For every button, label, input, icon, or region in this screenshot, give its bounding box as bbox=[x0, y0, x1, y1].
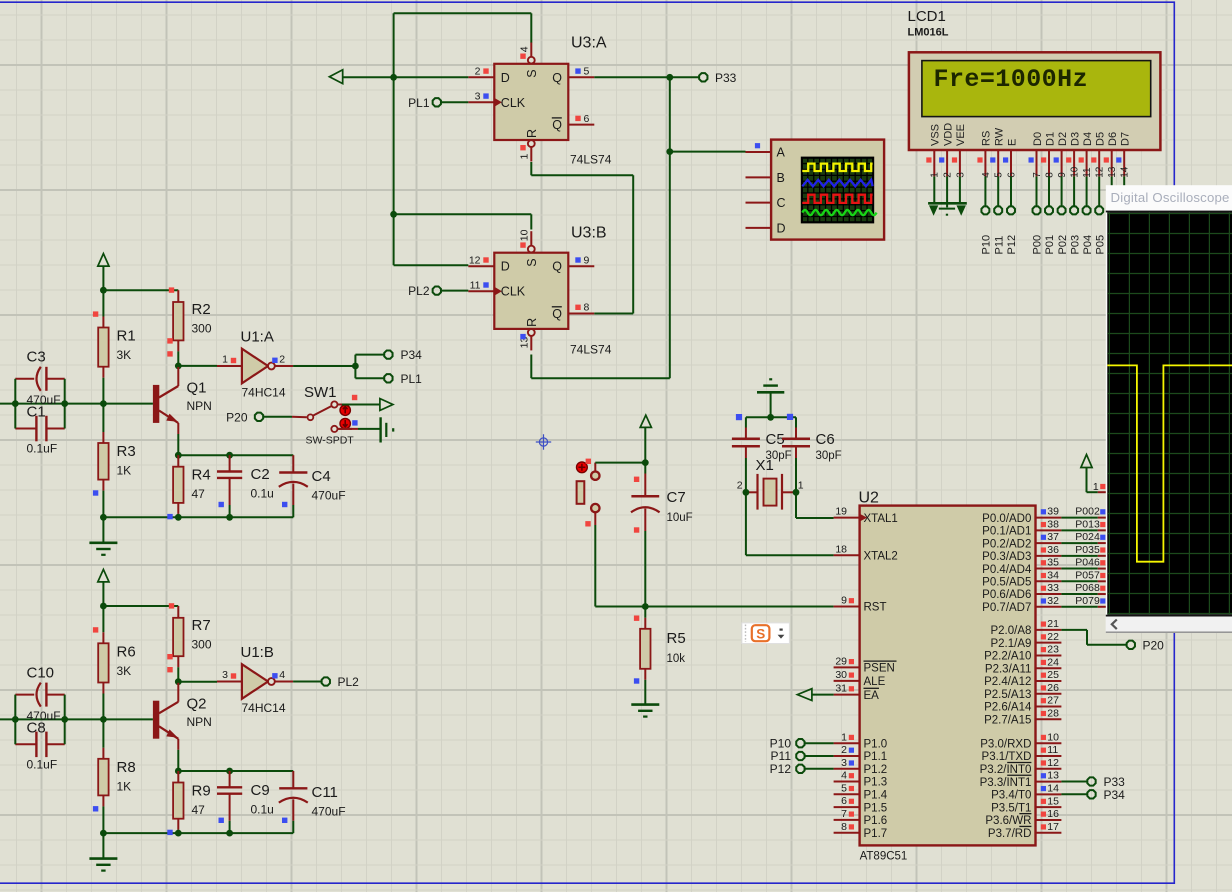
svg-text:14: 14 bbox=[1120, 166, 1131, 178]
svg-text:4: 4 bbox=[279, 669, 285, 681]
wire net P01 (P0.1 to hidden chip pin 3) bbox=[1061, 518, 1106, 530]
svg-text:32: 32 bbox=[1047, 595, 1059, 607]
svg-text:PSEN: PSEN bbox=[864, 663, 895, 675]
svg-text:P1.4: P1.4 bbox=[864, 790, 888, 802]
node terminal P02 (LCD) bbox=[1057, 176, 1069, 254]
svg-text:4: 4 bbox=[841, 770, 847, 782]
svg-text:16: 16 bbox=[1047, 808, 1059, 820]
resistor R4 47 bbox=[173, 455, 211, 517]
node terminal PL1 (U3:A clock) bbox=[408, 96, 468, 110]
transistor Q2 NPN bbox=[153, 683, 212, 771]
svg-text:PL2: PL2 bbox=[338, 675, 360, 689]
capacitor C8 0.1uF bbox=[15, 719, 64, 771]
svg-text:P34: P34 bbox=[1104, 788, 1126, 802]
svg-text:R5: R5 bbox=[667, 630, 686, 647]
svg-text:13: 13 bbox=[1047, 770, 1059, 782]
node terminal P11 (U2 P1.1) bbox=[771, 749, 834, 763]
svg-text:P3.3/INT1: P3.3/INT1 bbox=[980, 777, 1032, 789]
svg-text:U1:A: U1:A bbox=[241, 329, 274, 346]
node emitter junctions bbox=[175, 452, 233, 459]
wire EA to arrow bbox=[797, 689, 833, 701]
svg-text:P3.5/T1: P3.5/T1 bbox=[991, 802, 1031, 814]
switch SW1 SW-SPDT bbox=[264, 384, 355, 447]
node base junctions bbox=[12, 400, 107, 407]
svg-text:5: 5 bbox=[841, 782, 847, 794]
node terminal P04 (LCD) bbox=[1082, 176, 1094, 254]
svg-text:74HC14: 74HC14 bbox=[242, 701, 286, 715]
wire collector to inverter input bbox=[178, 365, 217, 367]
svg-text:C9: C9 bbox=[251, 782, 270, 799]
svg-text:P02: P02 bbox=[1057, 235, 1069, 255]
svg-text:12: 12 bbox=[1047, 757, 1059, 769]
svg-text:P002: P002 bbox=[1075, 506, 1100, 518]
resistor R1 3K bbox=[93, 290, 136, 403]
power arrow (hidden chip pin 1) bbox=[1081, 455, 1107, 493]
flip-flop U3:B 74LS74 bbox=[468, 225, 611, 357]
svg-text:P20: P20 bbox=[1143, 638, 1165, 652]
node terminal P20 (U2) bbox=[1127, 638, 1165, 652]
svg-text:S: S bbox=[525, 69, 539, 77]
resistor R2 300 bbox=[167, 290, 212, 366]
svg-text:12: 12 bbox=[469, 254, 481, 266]
wire power to top rail bbox=[102, 582, 104, 606]
svg-text:0.1uF: 0.1uF bbox=[27, 442, 58, 456]
node terminal P10 (LCD) bbox=[981, 176, 993, 254]
svg-text:D7: D7 bbox=[1120, 132, 1132, 146]
svg-text:P0.7/AD7: P0.7/AD7 bbox=[982, 602, 1031, 614]
svg-text:P1.5: P1.5 bbox=[864, 802, 888, 814]
svg-text:R6: R6 bbox=[117, 643, 136, 660]
svg-text:39: 39 bbox=[1047, 506, 1059, 518]
svg-text:P2.2/A10: P2.2/A10 bbox=[984, 651, 1031, 663]
wire net P07 (P0.7 to hidden chip pin 9) bbox=[1061, 595, 1106, 607]
capacitor C1 0.1uF bbox=[15, 404, 64, 456]
capacitor C3 470uF bbox=[15, 349, 64, 408]
push button (reset) bbox=[577, 459, 600, 527]
wire D-net: arrow to U3:A D, U3:A S, U3:B D, U3:B S bbox=[343, 13, 532, 265]
wire XTAL2 net bbox=[746, 492, 834, 555]
svg-text:C4: C4 bbox=[312, 468, 331, 485]
resistor R6 3K bbox=[93, 606, 136, 719]
svg-text:D: D bbox=[501, 260, 510, 274]
svg-text:P03: P03 bbox=[1069, 235, 1081, 255]
svg-text:P0.2/AD2: P0.2/AD2 bbox=[982, 538, 1031, 550]
svg-text:1: 1 bbox=[841, 731, 847, 743]
svg-text:470uF: 470uF bbox=[312, 489, 346, 503]
node bottom rail junctions bbox=[100, 514, 233, 521]
node terminal P06 (LCD) bbox=[1107, 176, 1119, 254]
wire LCD VSS/VDD/VEE to ground bbox=[934, 176, 960, 207]
wire net P00 (P0.0 to hidden chip pin 2) bbox=[1061, 506, 1106, 518]
svg-text:22: 22 bbox=[1047, 631, 1059, 643]
svg-text:P3.1/TXD: P3.1/TXD bbox=[982, 751, 1032, 763]
svg-text:Digital Oscilloscope: Digital Oscilloscope bbox=[1111, 190, 1230, 205]
oscilloscope component (A-D graph display) bbox=[746, 140, 885, 240]
svg-text:D3: D3 bbox=[1069, 132, 1081, 146]
svg-text:74HC14: 74HC14 bbox=[242, 386, 286, 400]
svg-text:P1.7: P1.7 bbox=[864, 828, 888, 840]
node base junctions bbox=[12, 716, 107, 723]
wire bottom rail bbox=[103, 516, 293, 518]
svg-text:Q: Q bbox=[552, 71, 562, 85]
svg-text:27: 27 bbox=[1047, 695, 1059, 707]
svg-text:1: 1 bbox=[1093, 481, 1099, 493]
svg-text:D: D bbox=[501, 71, 510, 85]
node terminal P03 (LCD) bbox=[1069, 176, 1081, 254]
resistor R8 1K bbox=[93, 719, 136, 833]
svg-text:10uF: 10uF bbox=[667, 512, 693, 524]
svg-text:3: 3 bbox=[841, 757, 847, 769]
state square R2 top bbox=[169, 287, 174, 292]
svg-text:VSS: VSS bbox=[930, 124, 942, 146]
svg-text:P013: P013 bbox=[1075, 518, 1100, 530]
svg-text:NPN: NPN bbox=[187, 399, 212, 413]
node crystal junctions bbox=[743, 489, 800, 496]
wire top rail bbox=[103, 289, 178, 291]
microcontroller U2 AT89C51 bbox=[834, 490, 1062, 863]
node terminal P12 (U2 P1.2) bbox=[770, 762, 834, 776]
svg-text:C: C bbox=[777, 196, 786, 210]
svg-text:35: 35 bbox=[1047, 557, 1059, 569]
crystal X1 bbox=[737, 457, 804, 510]
svg-text:2: 2 bbox=[737, 480, 743, 492]
svg-text:CLK: CLK bbox=[501, 285, 526, 299]
svg-text:D: D bbox=[777, 222, 786, 236]
svg-text:D4: D4 bbox=[1082, 132, 1094, 146]
wire net P03 (P0.3 to hidden chip pin 5) bbox=[1061, 544, 1106, 556]
svg-text:C2: C2 bbox=[251, 466, 270, 483]
svg-text:P20: P20 bbox=[226, 410, 248, 424]
svg-text:12: 12 bbox=[1095, 166, 1106, 178]
svg-text:EA: EA bbox=[864, 690, 880, 702]
transistor Q1 NPN bbox=[153, 367, 212, 455]
svg-text:C5: C5 bbox=[766, 431, 785, 448]
svg-text:P1.3: P1.3 bbox=[864, 777, 888, 789]
svg-text:Q2: Q2 bbox=[187, 695, 207, 712]
svg-text:P05: P05 bbox=[1094, 235, 1106, 255]
svg-text:D6: D6 bbox=[1107, 132, 1119, 146]
svg-text:AT89C51: AT89C51 bbox=[860, 851, 908, 863]
svg-text:XTAL2: XTAL2 bbox=[864, 550, 898, 562]
svg-text:25: 25 bbox=[1047, 669, 1059, 681]
svg-text:D1: D1 bbox=[1044, 132, 1056, 146]
svg-text:P2.4/A12: P2.4/A12 bbox=[984, 676, 1031, 688]
svg-text:14: 14 bbox=[1047, 782, 1059, 794]
svg-text:28: 28 bbox=[1047, 707, 1059, 719]
svg-text:NPN: NPN bbox=[187, 715, 212, 729]
svg-text:P3.4/T0: P3.4/T0 bbox=[991, 790, 1031, 802]
svg-text:26: 26 bbox=[1047, 682, 1059, 694]
flip-flop U3:A 74LS74 bbox=[468, 35, 611, 167]
op-amp-style inverter U1:B 74HC14 bbox=[217, 644, 293, 715]
wire button bottom to RST rail bbox=[595, 512, 645, 606]
svg-text:47: 47 bbox=[192, 487, 206, 501]
svg-text:P2.6/A14: P2.6/A14 bbox=[984, 702, 1032, 714]
svg-text:B: B bbox=[777, 171, 785, 185]
svg-text:P068: P068 bbox=[1075, 582, 1100, 594]
svg-text:Q: Q bbox=[552, 307, 562, 321]
node terminal P20 (switch) bbox=[226, 410, 263, 424]
node terminal P34 (U2) bbox=[1087, 788, 1125, 802]
svg-text:P34: P34 bbox=[401, 348, 423, 362]
capacitor C9 0.1u bbox=[217, 771, 274, 833]
svg-text:9: 9 bbox=[841, 595, 847, 607]
svg-text:R7: R7 bbox=[192, 617, 211, 634]
svg-text:3K: 3K bbox=[117, 664, 132, 678]
wire U3:A R to U3:B Qbar bbox=[531, 162, 633, 314]
svg-text:5: 5 bbox=[584, 66, 590, 78]
svg-text:1: 1 bbox=[222, 354, 228, 366]
svg-text:D5: D5 bbox=[1095, 132, 1107, 146]
node terminal PL1 (source) bbox=[384, 372, 422, 386]
svg-text:C11: C11 bbox=[312, 784, 338, 801]
svg-text:8: 8 bbox=[841, 821, 847, 833]
svg-text:1: 1 bbox=[518, 154, 530, 160]
switch SW1 toggle buttons bbox=[340, 405, 350, 429]
node arrow terminal (top-left input) bbox=[329, 70, 342, 84]
wire net P02 (P0.2 to hidden chip pin 4) bbox=[1061, 531, 1106, 543]
ground (rotated) at SW1 bbox=[381, 417, 394, 442]
node collector junction bbox=[175, 363, 182, 370]
wire P3.3 to P33 terminal bbox=[1061, 781, 1087, 783]
svg-text:ALE: ALE bbox=[864, 676, 886, 688]
svg-text:P035: P035 bbox=[1075, 544, 1100, 556]
wire P2.0 to P20 terminal bbox=[1061, 630, 1126, 645]
wire button top rail bbox=[595, 459, 648, 471]
svg-text:P12: P12 bbox=[770, 762, 792, 776]
node U1:A output junction bbox=[352, 363, 359, 370]
node top rail junction bbox=[100, 287, 107, 294]
svg-text:R2: R2 bbox=[192, 301, 211, 318]
node terminal P11 (LCD) bbox=[993, 176, 1005, 254]
node terminal P10 (U2 P1.0) bbox=[770, 736, 834, 750]
node emitter junctions bbox=[175, 768, 233, 775]
svg-text:P0.1/AD1: P0.1/AD1 bbox=[982, 526, 1031, 538]
node arrow terminal (right) bbox=[380, 399, 393, 411]
svg-text:P33: P33 bbox=[715, 71, 737, 85]
svg-text:300: 300 bbox=[192, 322, 212, 336]
svg-text:R3: R3 bbox=[117, 443, 136, 460]
wire net P05 (P0.5 to hidden chip pin 7) bbox=[1061, 569, 1106, 581]
svg-text:31: 31 bbox=[835, 683, 847, 695]
svg-text:1K: 1K bbox=[117, 779, 132, 793]
resistor R7 300 bbox=[167, 606, 212, 682]
svg-text:PL1: PL1 bbox=[408, 96, 430, 110]
svg-text:10k: 10k bbox=[667, 653, 686, 665]
node top rail junction bbox=[100, 603, 107, 610]
svg-text:P2.7/A15: P2.7/A15 bbox=[984, 714, 1031, 726]
svg-text:P0.5/AD5: P0.5/AD5 bbox=[982, 577, 1031, 589]
svg-text:Q: Q bbox=[552, 260, 562, 274]
svg-text:C6: C6 bbox=[816, 431, 835, 448]
wire RST net to U2 bbox=[642, 603, 834, 610]
svg-text:21: 21 bbox=[1047, 618, 1059, 630]
svg-text:X1: X1 bbox=[756, 457, 774, 474]
svg-text:300: 300 bbox=[192, 637, 212, 651]
svg-text:47: 47 bbox=[192, 803, 206, 817]
svg-text:C8: C8 bbox=[27, 719, 46, 736]
node origin crosshair marker bbox=[536, 434, 551, 449]
svg-text:23: 23 bbox=[1047, 644, 1059, 656]
capacitor C7 10uF bbox=[631, 463, 693, 607]
capacitor C11 470uF bbox=[279, 771, 346, 833]
svg-text:P3.7/RD: P3.7/RD bbox=[988, 828, 1031, 840]
svg-text:Fre=1000Hz: Fre=1000Hz bbox=[934, 65, 1089, 94]
resistor R3 1K bbox=[93, 404, 136, 518]
svg-text:11: 11 bbox=[1082, 167, 1093, 178]
svg-text:4: 4 bbox=[518, 46, 530, 52]
svg-text:P2.3/A11: P2.3/A11 bbox=[985, 663, 1031, 675]
svg-text:0.1uF: 0.1uF bbox=[27, 757, 58, 771]
svg-text:11: 11 bbox=[470, 279, 481, 291]
svg-text:P0.3/AD3: P0.3/AD3 bbox=[982, 551, 1031, 563]
node terminal P34 bbox=[384, 348, 422, 362]
svg-text:S: S bbox=[525, 258, 539, 266]
svg-text:P01: P01 bbox=[1044, 235, 1056, 255]
svg-text:6: 6 bbox=[841, 795, 847, 807]
svg-text:S: S bbox=[756, 626, 765, 641]
node Q-net junctions bbox=[666, 74, 673, 155]
svg-text:3: 3 bbox=[222, 669, 228, 681]
svg-text:R9: R9 bbox=[192, 782, 211, 799]
svg-text:7: 7 bbox=[841, 808, 847, 820]
wire emitter rail bbox=[178, 770, 293, 772]
svg-text:P04: P04 bbox=[1082, 235, 1094, 255]
node terminal P33 (U3:A Q) bbox=[699, 71, 737, 85]
svg-text:34: 34 bbox=[1047, 569, 1059, 581]
capacitor C4 470uF bbox=[279, 455, 346, 517]
svg-text:P2.1/A9: P2.1/A9 bbox=[990, 638, 1031, 650]
svg-text:P12: P12 bbox=[1006, 235, 1018, 255]
svg-text:P3.0/RXD: P3.0/RXD bbox=[980, 738, 1031, 750]
wire U1:B output to PL2 bbox=[293, 681, 321, 683]
wire net P06 (P0.6 to hidden chip pin 8) bbox=[1061, 582, 1106, 594]
svg-text:P3.6/WR: P3.6/WR bbox=[985, 815, 1031, 827]
svg-text:1: 1 bbox=[798, 480, 804, 492]
node terminal P07 (LCD) bbox=[1119, 176, 1131, 254]
svg-text:10: 10 bbox=[1047, 731, 1059, 743]
svg-text:C7: C7 bbox=[667, 489, 686, 506]
svg-text:P1.2: P1.2 bbox=[864, 764, 888, 776]
svg-text:SW1: SW1 bbox=[304, 384, 337, 401]
svg-text:2: 2 bbox=[475, 66, 481, 78]
svg-text:37: 37 bbox=[1047, 531, 1059, 543]
svg-text:2: 2 bbox=[841, 744, 847, 756]
resistor R5 10k bbox=[634, 607, 686, 705]
node terminal P01 (LCD) bbox=[1044, 176, 1056, 254]
svg-text:74LS74: 74LS74 bbox=[570, 153, 612, 167]
svg-text:U2: U2 bbox=[859, 490, 880, 507]
wire bottom rail bbox=[103, 832, 293, 834]
svg-text:U3:A: U3:A bbox=[571, 35, 607, 52]
svg-text:R8: R8 bbox=[117, 759, 136, 776]
wire cap top rail bbox=[736, 414, 796, 421]
wire SW1 top throw to arrow bbox=[342, 404, 380, 406]
svg-text:P10: P10 bbox=[981, 235, 993, 255]
node terminal P00 (LCD) bbox=[1032, 176, 1044, 254]
svg-text:P057: P057 bbox=[1075, 569, 1100, 581]
svg-text:D2: D2 bbox=[1057, 132, 1069, 146]
svg-text:C3: C3 bbox=[27, 349, 46, 366]
S script icon popup bbox=[742, 623, 790, 644]
power arrow VCC2 bbox=[98, 569, 109, 582]
svg-text:6: 6 bbox=[584, 113, 590, 125]
svg-text:Q1: Q1 bbox=[187, 380, 207, 397]
svg-text:0.1u: 0.1u bbox=[251, 802, 274, 816]
node D-net junctions bbox=[390, 74, 397, 218]
svg-text:Q: Q bbox=[552, 118, 562, 132]
svg-text:19: 19 bbox=[835, 506, 847, 518]
node terminal PL2 (U3:B clock) bbox=[408, 284, 468, 298]
svg-text:15: 15 bbox=[1047, 795, 1059, 807]
svg-text:PL1: PL1 bbox=[401, 372, 423, 386]
wire cap pair sides bbox=[15, 379, 64, 429]
wire net P04 (P0.4 to hidden chip pin 6) bbox=[1061, 557, 1106, 569]
node terminal P05 (LCD) bbox=[1094, 176, 1106, 254]
svg-text:VEE: VEE bbox=[955, 124, 967, 146]
LCD LCD1 LM016L bbox=[908, 8, 1161, 178]
ground (top, crystal caps) bbox=[757, 379, 784, 417]
svg-text:E: E bbox=[1006, 139, 1018, 146]
power arrow VCC1 bbox=[98, 254, 109, 267]
svg-text:P3.2/INT0: P3.2/INT0 bbox=[980, 764, 1032, 776]
svg-text:RW: RW bbox=[994, 127, 1006, 146]
svg-text:P1.1: P1.1 bbox=[864, 751, 888, 763]
wire P3.4 to P34 terminal bbox=[1061, 793, 1087, 795]
svg-text:A: A bbox=[777, 146, 786, 160]
svg-text:1K: 1K bbox=[117, 464, 132, 478]
svg-text:PL2: PL2 bbox=[408, 284, 430, 298]
op-amp-style inverter U1:A 74HC14 bbox=[217, 329, 293, 400]
svg-text:24: 24 bbox=[1047, 656, 1059, 668]
svg-text:P2.0/A8: P2.0/A8 bbox=[990, 625, 1031, 637]
wire base rail bbox=[0, 403, 153, 405]
svg-text:38: 38 bbox=[1047, 518, 1059, 530]
svg-text:P024: P024 bbox=[1075, 531, 1100, 543]
wire XTAL1 net bbox=[796, 517, 834, 519]
svg-text:SW-SPDT: SW-SPDT bbox=[306, 435, 355, 447]
node terminal P12 (LCD) bbox=[1006, 176, 1018, 254]
svg-text:P079: P079 bbox=[1075, 595, 1100, 607]
capacitor C2 0.1u bbox=[217, 455, 274, 517]
wire base rail bbox=[0, 718, 153, 720]
svg-text:30pF: 30pF bbox=[816, 450, 842, 462]
svg-text:74LS74: 74LS74 bbox=[570, 343, 612, 357]
svg-text:C1: C1 bbox=[27, 404, 46, 421]
svg-text:30: 30 bbox=[835, 669, 847, 681]
svg-text:C10: C10 bbox=[27, 664, 55, 681]
svg-text:11: 11 bbox=[1047, 744, 1058, 756]
svg-text:P0.0/AD0: P0.0/AD0 bbox=[982, 513, 1031, 525]
svg-text:P00: P00 bbox=[1032, 235, 1044, 255]
svg-text:P2.5/A13: P2.5/A13 bbox=[984, 689, 1031, 701]
svg-text:P1.6: P1.6 bbox=[864, 815, 888, 827]
capacitor C6 30pF bbox=[782, 417, 842, 518]
resistor R9 47 bbox=[173, 771, 211, 833]
capacitor C10 470uF bbox=[15, 664, 64, 723]
svg-text:18: 18 bbox=[835, 543, 847, 555]
wire top rail bbox=[103, 605, 178, 607]
svg-text:29: 29 bbox=[835, 656, 847, 668]
ground (R5) bbox=[631, 705, 659, 717]
svg-text:0.1u: 0.1u bbox=[251, 487, 274, 501]
svg-text:RS: RS bbox=[981, 131, 993, 146]
capacitor C5 30pF bbox=[732, 417, 792, 492]
svg-text:VDD: VDD bbox=[942, 123, 954, 146]
ground GND1 bbox=[89, 517, 117, 555]
svg-text:17: 17 bbox=[1047, 821, 1059, 833]
node bottom rail junctions bbox=[100, 830, 233, 837]
